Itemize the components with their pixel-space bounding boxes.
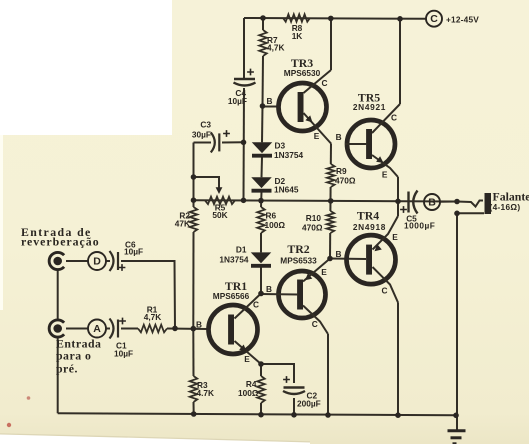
svg-text:100Ω: 100Ω <box>265 220 286 230</box>
svg-text:E: E <box>392 232 398 242</box>
svg-text:TR4: TR4 <box>357 209 379 223</box>
svg-text:4,7K: 4,7K <box>267 43 285 53</box>
svg-text:B: B <box>336 132 342 142</box>
svg-text:C: C <box>253 300 259 310</box>
svg-text:E: E <box>314 131 320 141</box>
svg-text:30µF: 30µF <box>192 130 211 140</box>
svg-text:B: B <box>196 320 202 330</box>
svg-text:470Ω: 470Ω <box>335 176 356 186</box>
svg-text:+12-45V: +12-45V <box>446 14 479 24</box>
svg-text:reverberação: reverberação <box>21 235 100 249</box>
svg-text:para o: para o <box>56 349 91 363</box>
svg-text:100Ω: 100Ω <box>238 388 259 398</box>
svg-text:pré.: pré. <box>56 362 78 376</box>
svg-text:MPS6533: MPS6533 <box>280 256 317 266</box>
svg-text:E: E <box>321 267 327 277</box>
svg-text:B: B <box>266 284 272 294</box>
svg-text:(4-16Ω): (4-16Ω) <box>490 202 521 212</box>
svg-text:10µF: 10µF <box>114 349 133 359</box>
svg-text:C: C <box>391 113 397 123</box>
svg-text:1N3754: 1N3754 <box>274 150 303 160</box>
svg-text:D1: D1 <box>236 245 247 255</box>
svg-text:TR2: TR2 <box>287 242 309 256</box>
svg-text:2N4921: 2N4921 <box>353 102 386 112</box>
svg-text:2N4918: 2N4918 <box>353 222 386 232</box>
svg-text:50K: 50K <box>212 210 227 220</box>
svg-text:C: C <box>322 78 328 88</box>
svg-text:200µF: 200µF <box>297 399 321 409</box>
svg-text:A: A <box>93 323 101 335</box>
svg-text:4.7K: 4.7K <box>197 388 215 398</box>
svg-text:D3: D3 <box>275 141 286 151</box>
svg-text:47K: 47K <box>175 219 190 229</box>
svg-text:R9: R9 <box>336 166 347 176</box>
svg-text:10µF: 10µF <box>228 96 247 106</box>
svg-text:C: C <box>312 319 318 329</box>
svg-text:C: C <box>430 13 438 25</box>
svg-text:MPS6566: MPS6566 <box>213 291 250 301</box>
svg-text:R10: R10 <box>306 213 322 223</box>
svg-text:4,7K: 4,7K <box>144 312 162 322</box>
svg-text:1N3754: 1N3754 <box>219 255 248 265</box>
svg-text:E: E <box>382 170 388 180</box>
svg-text:C3: C3 <box>200 120 211 130</box>
svg-text:470Ω: 470Ω <box>302 223 323 233</box>
svg-text:C: C <box>382 286 388 296</box>
svg-text:MPS6530: MPS6530 <box>284 68 321 78</box>
svg-text:1N645: 1N645 <box>274 185 299 195</box>
svg-text:D: D <box>93 255 101 267</box>
svg-text:B: B <box>267 96 273 106</box>
svg-text:1000µF: 1000µF <box>404 221 435 231</box>
svg-text:E: E <box>244 354 250 364</box>
svg-text:B: B <box>336 249 342 259</box>
svg-text:B: B <box>428 196 436 208</box>
svg-text:R6: R6 <box>266 211 277 221</box>
svg-text:10µF: 10µF <box>124 247 143 257</box>
svg-text:1K: 1K <box>292 31 303 41</box>
